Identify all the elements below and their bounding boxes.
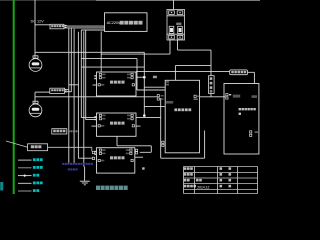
power adapter U3 label box xyxy=(230,70,248,75)
frame top border xyxy=(0,0,96,2)
green wall line xyxy=(13,0,15,194)
monitor aux pin xyxy=(252,95,258,98)
wire adapter1 to AC board L xyxy=(67,25,105,27)
label to control room xyxy=(68,130,78,132)
wire box2 right upper to outer frame xyxy=(136,117,161,119)
trunk cable 2 xyxy=(70,28,72,92)
wire box1 video to DVR xyxy=(136,85,165,90)
corner UI glyph xyxy=(0,182,3,191)
wire down to cable label xyxy=(210,50,212,97)
wire adapter2 to trunk2 xyxy=(67,91,72,93)
ground symbol xyxy=(80,181,90,185)
DVR box xyxy=(165,80,199,153)
DVR left input pins xyxy=(157,95,159,97)
warning sign label box xyxy=(28,144,48,151)
cable bundle label box xyxy=(52,129,67,134)
label HDMI xyxy=(233,95,240,98)
junction mark xyxy=(142,167,144,169)
power adapter U1 xyxy=(50,24,64,29)
wire DVR video out to monitor xyxy=(200,96,226,98)
wire feeder to waterproof box2 a xyxy=(81,30,104,118)
wire mid bus lower xyxy=(81,66,144,68)
note line 2 xyxy=(68,168,78,170)
wire AC box bottom drop to box1 xyxy=(100,31,102,72)
leader line to wall xyxy=(6,141,28,147)
wire box2 left lower stub xyxy=(92,125,97,127)
wire mid bus upper xyxy=(81,59,137,90)
outer equipment frame xyxy=(161,98,205,158)
box3 right outer pins xyxy=(135,149,137,151)
monitor AC pin block xyxy=(250,131,252,133)
table row labels xyxy=(184,167,193,170)
wire adapter U3 to monitor xyxy=(248,72,255,83)
legend fiber line xyxy=(18,175,32,177)
DVR top-left pins xyxy=(166,81,169,83)
wire box1 video stub xyxy=(93,84,97,86)
svg-text:AC220V: AC220V xyxy=(107,20,121,25)
label 16A xyxy=(176,23,181,25)
wire breaker right pole to right xyxy=(178,40,212,50)
wire mains feed drop xyxy=(173,0,175,10)
trunk cable 1 xyxy=(68,28,70,164)
wire branch to DVR power xyxy=(175,66,211,81)
trunk cable 4 to ground xyxy=(83,31,86,181)
AC220V power board box xyxy=(105,13,148,32)
circuit breaker QF 2P xyxy=(167,10,185,41)
inline connector xyxy=(153,76,157,79)
wire camera1 drop xyxy=(34,0,36,58)
waterproof box 2 xyxy=(97,113,137,136)
wire adapter2 to trunk1 xyxy=(67,89,69,91)
DVR right output pins xyxy=(194,95,196,97)
note line 1 xyxy=(62,163,93,165)
wire feeder to waterproof box2 b xyxy=(86,30,97,120)
monitor HDMI pins xyxy=(226,94,228,96)
drawing title front-end device connection xyxy=(96,186,128,190)
wire bus to DVR in3 xyxy=(144,105,165,107)
wire breaker left pole to bus xyxy=(101,40,170,54)
legend network line xyxy=(18,190,32,192)
junction box2 output xyxy=(143,114,146,117)
waterproof box 3 xyxy=(97,148,135,173)
svg-text:2014.12: 2014.12 xyxy=(197,186,209,190)
adapter U1 plug pins xyxy=(65,25,67,27)
label DVR xyxy=(174,108,191,111)
wire box2 bottom run xyxy=(117,136,151,152)
label plasma monitor xyxy=(239,108,256,110)
adapter U2 plug pins xyxy=(65,89,67,91)
svg-text:DC 12V: DC 12V xyxy=(31,20,45,24)
monitor box xyxy=(224,84,259,155)
wire to adapter1 xyxy=(35,24,50,26)
title block table xyxy=(184,167,258,194)
wire adapter1 to AC board N xyxy=(67,27,105,29)
wire stub xyxy=(69,84,79,86)
wire box3 right lower stub xyxy=(135,156,143,158)
trunk cable 3 xyxy=(78,32,92,159)
table review cells xyxy=(220,167,223,170)
legend control line xyxy=(18,182,32,184)
legend power line xyxy=(18,159,32,161)
wire to adapter2 xyxy=(35,91,50,93)
camera 2 dome xyxy=(29,101,42,117)
legend video line xyxy=(18,167,32,169)
power adapter U2 xyxy=(50,88,65,93)
junction box1 output xyxy=(136,76,144,78)
waterproof box 1 xyxy=(97,72,137,96)
wire camera2 video to DVR xyxy=(35,96,157,98)
wire label to box3 xyxy=(48,147,92,151)
cable label box vertical xyxy=(209,76,215,94)
trunk cable 2b xyxy=(73,29,75,164)
camera 1 dome xyxy=(29,56,42,72)
wire bus to DVR in1 xyxy=(144,86,165,88)
wire power line to monitor adapter xyxy=(136,70,230,72)
box3 left outer pins xyxy=(92,151,94,153)
outer frame pins xyxy=(162,141,164,143)
wire box2 right lower stub xyxy=(136,125,141,127)
wire camera1 video bus xyxy=(35,52,144,115)
wire camera2 drop xyxy=(34,92,36,103)
